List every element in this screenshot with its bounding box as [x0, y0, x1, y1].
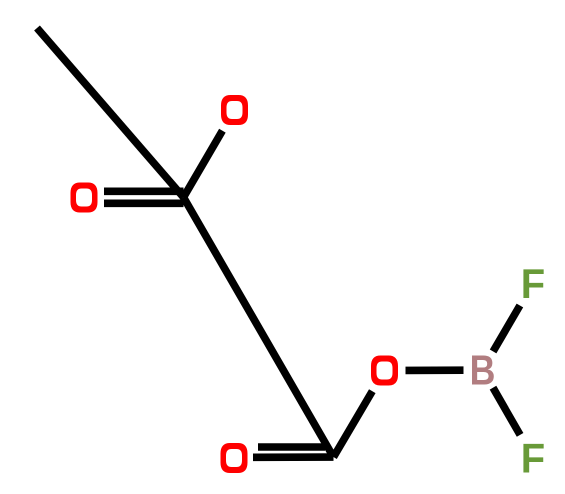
svg-text:B: B [470, 348, 496, 394]
svg-text:F: F [521, 260, 545, 307]
svg-text:F: F [521, 435, 545, 482]
